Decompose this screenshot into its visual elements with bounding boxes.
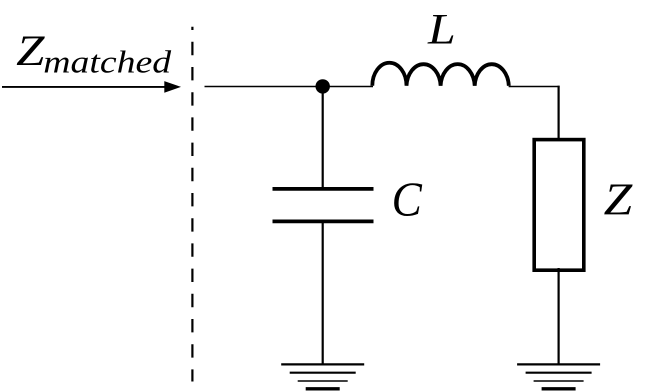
impedance box Z [534, 140, 584, 271]
capacitor C top plate [273, 187, 374, 191]
svg-text:L: L [427, 6, 456, 53]
wire Z box to ground [557, 268, 559, 364]
capacitor C bottom plate [273, 220, 374, 224]
svg-text:matched: matched [43, 46, 172, 80]
svg-text:Z: Z [16, 28, 45, 75]
arrowhead [164, 81, 181, 93]
wire capacitor to ground [322, 223, 324, 364]
ground (left) [281, 364, 364, 388]
wire node down to capacitor [322, 87, 324, 188]
node junction dot [316, 79, 330, 93]
wire from plane to node [205, 86, 374, 88]
wire inductor to corner [509, 86, 560, 88]
svg-text:C: C [392, 173, 423, 227]
svg-text:Z: Z [604, 174, 634, 225]
wire corner down to Z box [557, 86, 559, 141]
arrow line (input impedance) [2, 86, 168, 88]
dashed reference-plane line [191, 27, 193, 382]
inductor L [372, 63, 509, 86]
ground (right) [517, 364, 600, 388]
